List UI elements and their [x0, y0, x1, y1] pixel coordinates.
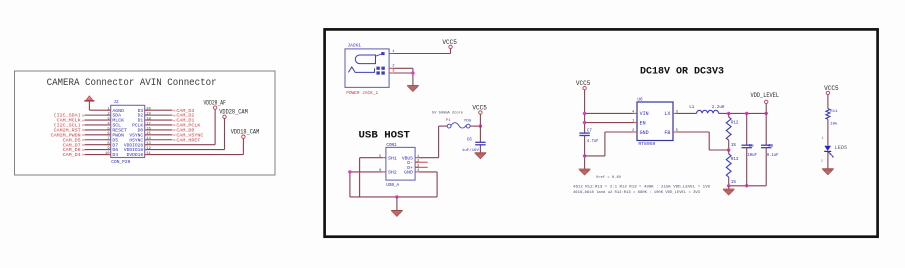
net label CAM_D3 — [173, 108, 195, 114]
junction — [745, 112, 748, 115]
svg-text:VDD18_CAM: VDD18_CAM — [231, 128, 260, 135]
svg-text:18: 18 — [146, 117, 151, 121]
wire J2 pin 3 — [85, 119, 111, 121]
junction — [727, 184, 730, 187]
wire J2 pin 11 to VDD18_CAM — [145, 154, 244, 156]
stub CON1 D- — [415, 161, 428, 163]
wire J2 pin 17 — [145, 124, 173, 126]
ground (R13) — [723, 189, 735, 195]
junction — [479, 124, 482, 127]
svg-text:VIN: VIN — [640, 111, 649, 117]
junction — [765, 112, 768, 115]
capacitor C9 — [761, 113, 779, 185]
wire J2 pin 9 — [85, 149, 111, 151]
svg-text:P1: P1 — [446, 119, 451, 123]
svg-text:DVDD18: DVDD18 — [127, 152, 144, 158]
net label CAM_D5 — [63, 137, 85, 143]
net label CAM_VSYNC — [173, 132, 204, 138]
ground (jack) — [407, 86, 419, 92]
wire JACK1 pin 1 to VCC5 — [393, 53, 451, 55]
svg-text:C9: C9 — [768, 145, 774, 149]
svg-text:Vref = 0.6V: Vref = 0.6V — [596, 175, 622, 180]
svg-text:SH1: SH1 — [388, 155, 397, 161]
junction — [745, 184, 748, 187]
wire FB to divider — [677, 131, 710, 133]
svg-text:1%: 1% — [731, 144, 737, 148]
net label (I2C_SCL) — [54, 123, 85, 129]
ground (C6) — [475, 153, 487, 159]
svg-text:5V 500mA 2core: 5V 500mA 2core — [432, 112, 464, 116]
svg-text:12: 12 — [146, 147, 151, 151]
wire CON1 GND pin 4 — [419, 171, 437, 173]
svg-text:CAMERA Connector AVIN Connect: CAMERA Connector AVIN Connector — [47, 78, 217, 89]
svg-text:10k: 10k — [830, 121, 838, 126]
net label CAM_PCLK — [173, 123, 201, 129]
junction — [727, 112, 730, 115]
svg-text:D4: D4 — [112, 152, 118, 158]
wire J2 pin 4 — [85, 124, 111, 126]
svg-text:C6: C6 — [467, 138, 473, 142]
junction — [583, 121, 586, 124]
svg-text:17: 17 — [146, 122, 151, 126]
wire J2 pin 10 — [85, 154, 111, 156]
net label CAM_D7 — [63, 142, 85, 148]
LED LED5 — [824, 145, 847, 158]
junction — [583, 112, 586, 115]
net label (I2C_SDA) — [54, 113, 85, 119]
svg-text:FB: FB — [664, 130, 670, 136]
wire output bottom bus — [729, 185, 767, 187]
svg-text:RT8059: RT8059 — [638, 143, 656, 147]
resistor R12 — [726, 113, 739, 150]
svg-text:11: 11 — [146, 152, 151, 156]
wire JACK1 pin 3 — [393, 72, 413, 74]
svg-text:JACK1: JACK1 — [347, 42, 361, 48]
power net VDD18_CAM — [231, 128, 260, 138]
svg-text:CAM_HREF: CAM_HREF — [176, 137, 200, 143]
svg-text:USB_A: USB_A — [386, 183, 399, 188]
wire J2 pin 18 — [145, 119, 173, 121]
power net VDD_LEVEL — [751, 92, 780, 104]
svg-text:USB HOST: USB HOST — [359, 129, 411, 140]
power symbol on J2 pin 1 (AGND) — [84, 96, 94, 110]
wire VCC5 to node — [479, 114, 481, 126]
svg-text:4.7uF: 4.7uF — [587, 140, 599, 144]
inductor L1 2.2uH — [689, 106, 725, 114]
svg-text:R12: R12 — [731, 121, 739, 125]
svg-text:14: 14 — [146, 137, 151, 141]
svg-text:U6: U6 — [637, 97, 643, 102]
connector J2 CON_P20 — [105, 100, 151, 165]
wire J2 pin 16 — [145, 129, 173, 131]
svg-text:16: 16 — [146, 127, 151, 131]
svg-text:CON1: CON1 — [386, 143, 397, 148]
power net VCC5 (jack) — [442, 39, 457, 49]
svg-text:LX: LX — [664, 111, 670, 117]
ground (C7) — [579, 169, 591, 175]
net label CAM_D0 — [173, 128, 195, 134]
ground (LED) — [822, 169, 834, 175]
junction — [411, 71, 414, 74]
wire VDD_LEVEL stem — [765, 104, 767, 114]
power net VCC5 (usb) — [472, 105, 487, 115]
capacitor C6 — [462, 126, 486, 153]
svg-text:VCC5: VCC5 — [824, 85, 839, 92]
svg-text:1%: 1% — [731, 181, 737, 185]
svg-text:19: 19 — [146, 113, 151, 117]
net label CAM_D6 — [63, 147, 85, 153]
net label CAM_MCLK — [57, 118, 85, 124]
wire LX to L1 — [677, 112, 697, 114]
wire L1 to VDD_LEVEL — [719, 112, 767, 114]
svg-text:0.1uF: 0.1uF — [767, 154, 779, 158]
wire EN — [585, 122, 634, 124]
svg-text:13: 13 — [146, 142, 151, 146]
wire J2 pin 20 — [145, 109, 173, 111]
wire J2 pin 7 — [85, 139, 111, 141]
svg-text:1: 1 — [822, 136, 824, 140]
svg-text:EN: EN — [640, 120, 646, 126]
wire bead to VCC5 node — [470, 125, 480, 127]
wire J2 pin 5 — [85, 129, 111, 131]
svg-text:20: 20 — [146, 108, 151, 112]
net label CAM_HREF — [173, 137, 201, 143]
svg-text:CON_P20: CON_P20 — [111, 159, 130, 165]
net label CAM_D2 — [173, 113, 195, 119]
junction — [727, 148, 730, 151]
wire J2 pin 12 to VDD28_CAM — [145, 149, 225, 151]
svg-text:1uF/16V: 1uF/16V — [462, 148, 480, 153]
wire CON1 VBUS to bead — [419, 157, 439, 159]
regulator U6 RT8059 — [632, 97, 678, 147]
svg-text:VCC5: VCC5 — [472, 105, 487, 112]
svg-text:DC18V OR DC3V3: DC18V OR DC3V3 — [640, 66, 724, 78]
svg-text:10: 10 — [105, 152, 110, 156]
svg-text:VDD28_AF: VDD28_AF — [203, 99, 226, 106]
svg-text:YDG: YDG — [464, 120, 472, 124]
svg-text:4618,8618 land u2 R12:R13 = 6: 4618,8618 land u2 R12:R13 = 680K : 100K … — [573, 190, 701, 195]
wire VCC5 rail — [584, 90, 586, 133]
usb connector CON1 USB_A — [379, 143, 420, 188]
wire CON1 SH2 — [350, 171, 382, 173]
wire U6 GND to rail — [605, 131, 634, 133]
svg-text:7: 7 — [107, 137, 109, 141]
wire J2 pin 2 — [85, 114, 111, 116]
wire VIN — [585, 112, 634, 114]
power net VDD28_AF — [203, 99, 226, 109]
svg-text:VCC5: VCC5 — [576, 80, 591, 87]
wire CON1 SH1 — [360, 157, 383, 159]
wire LED to ground — [827, 151, 829, 168]
svg-text:R13: R13 — [731, 158, 739, 162]
svg-text:R11: R11 — [830, 110, 838, 114]
wire J2 pin 19 — [145, 114, 173, 116]
ground (USB) — [391, 211, 403, 217]
capacitor C8 — [742, 113, 758, 185]
wire J2 pin 8 — [85, 144, 111, 146]
svg-text:VDD28_CAM: VDD28_CAM — [219, 109, 248, 116]
svg-text:J2: J2 — [113, 100, 119, 105]
wire CON1 ground bus — [350, 196, 437, 198]
net label CAM2M_RST — [54, 128, 85, 134]
svg-text:SH2: SH2 — [388, 170, 397, 176]
stub CON1 D+ — [415, 166, 428, 168]
net label CAM_D1 — [173, 118, 195, 124]
net label CAM2M_PWDN — [51, 132, 85, 138]
junction — [348, 170, 351, 173]
wire J2 pin 13 to VDD28_AF — [145, 144, 215, 146]
svg-text:L1: L1 — [689, 106, 695, 110]
svg-text:LED5: LED5 — [835, 145, 848, 151]
svg-text:»: » — [82, 153, 85, 158]
svg-text:10uF: 10uF — [747, 154, 757, 158]
svg-text:VDD_LEVEL: VDD_LEVEL — [751, 92, 780, 99]
net label CAM_D4 — [63, 152, 85, 158]
wire J2 pin 14 — [145, 139, 173, 141]
wire J2 pin 15 — [145, 134, 173, 136]
svg-text:4612 R12:R13 = 2:1 R12 R13 =: 4612 R12:R13 = 2:1 R12 R13 = 430K : 215K… — [573, 186, 711, 190]
wire J2 pin 6 — [85, 134, 111, 136]
ferrite bead P1 — [432, 112, 472, 129]
svg-text:GND: GND — [640, 130, 649, 136]
power net VDD28_CAM — [219, 109, 248, 119]
resistor R13 — [726, 150, 739, 186]
svg-text:2: 2 — [821, 159, 823, 163]
power net VCC5 (LED) — [824, 85, 839, 94]
wire JACK1 pin 2 — [393, 67, 413, 69]
svg-text:VCC5: VCC5 — [442, 39, 457, 46]
svg-text:C8: C8 — [749, 145, 755, 149]
junction — [395, 195, 398, 198]
svg-text:GND: GND — [404, 170, 413, 176]
svg-text:CAM_D4: CAM_D4 — [63, 152, 81, 158]
svg-text:POWER JACK_1: POWER JACK_1 — [346, 90, 378, 96]
svg-text:2.2uH: 2.2uH — [712, 106, 725, 110]
wire J2 pin 1 — [89, 109, 110, 111]
junction — [583, 154, 586, 157]
power net VCC5 (regulator) — [576, 80, 591, 90]
svg-text:C7: C7 — [587, 130, 593, 134]
svg-text:15: 15 — [146, 132, 151, 136]
svg-text:D-: D- — [407, 160, 413, 166]
resistor R11 — [826, 95, 838, 146]
power jack JACK1 — [345, 42, 395, 96]
capacitor C7 — [579, 130, 598, 169]
